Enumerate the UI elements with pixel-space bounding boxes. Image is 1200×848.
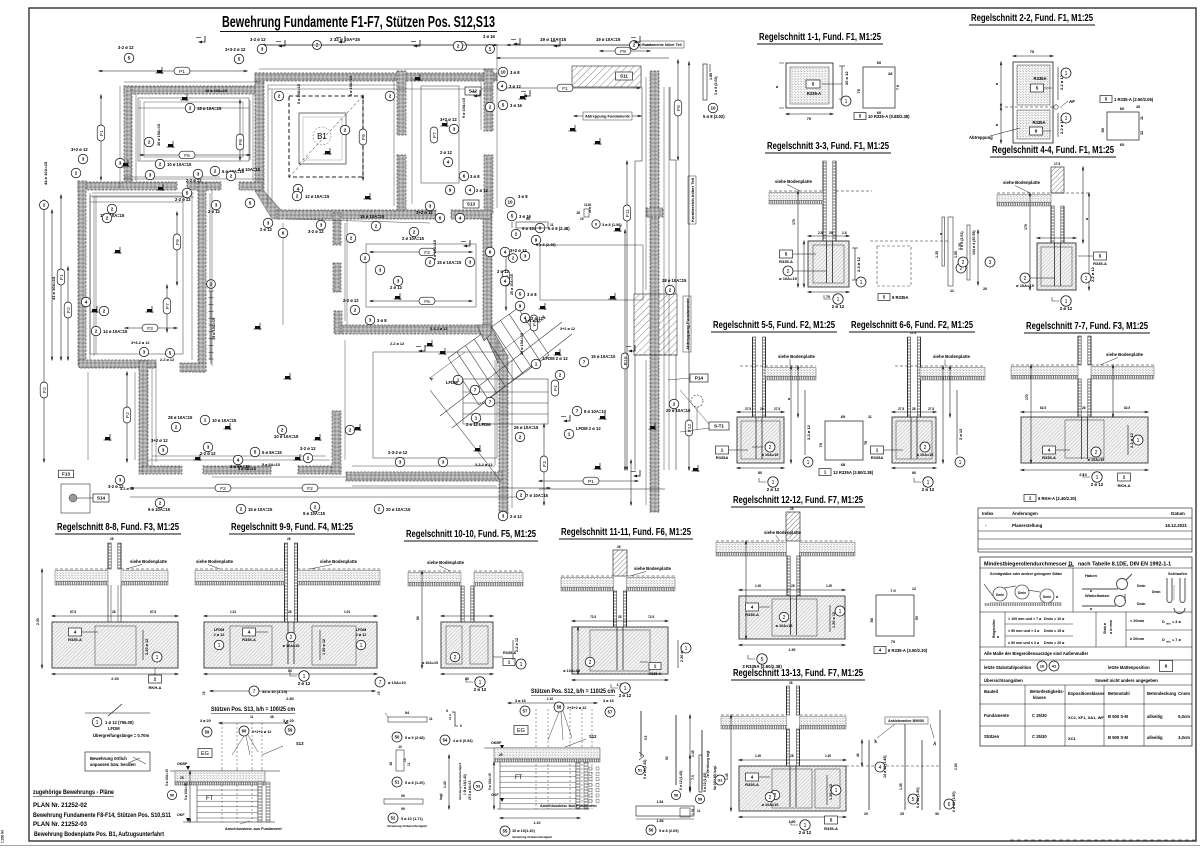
svg-text:2 ø 12: 2 ø 12 [922,487,935,492]
svg-text:2: 2 [344,128,347,133]
node circle 3 at 321,225 [316,220,326,230]
svg-text:Dmin: Dmin [1137,602,1145,606]
svg-text:2-2 ø 12: 2-2 ø 12 [390,342,404,346]
svg-text:Dmin = 20 ø: Dmin = 20 ø [1044,641,1065,645]
hook mark [626,345,635,352]
node circle 3 at 198,174 [193,169,203,179]
wire [155,364,157,462]
svg-text:ø 10A=15: ø 10A=15 [762,453,779,457]
svg-text:69: 69 [841,414,846,419]
node circle 7 at 475,390 [470,385,480,395]
svg-text:2: 2 [278,94,281,99]
svg-text:2: 2 [214,169,217,174]
top thin line y58 [497,57,669,59]
svg-text:134 ø 4 (20.55): 134 ø 4 (20.55) [972,230,976,255]
svg-text:5 ø 8A=15: 5 ø 8A=15 [262,463,280,467]
svg-text:18 ø 10A=15: 18 ø 10A=15 [197,106,222,111]
svg-text:3 ø 20: 3 ø 20 [283,719,294,723]
svg-text:ø in mm: ø in mm [1109,620,1113,634]
svg-text:Stützen: Stützen [984,734,1000,739]
svg-text:9 R335A: 9 R335A [892,295,909,300]
svg-text:1: 1 [1085,276,1088,282]
svg-text:2 ø 12: 2 ø 12 [260,227,273,232]
svg-text:1 20 ø 12: 1 20 ø 12 [322,639,326,655]
svg-text:12: 12 [912,587,916,591]
svg-text:Fundamente: Fundamente [984,713,1010,718]
wall bottom3 [346,472,502,481]
anchor mark [364,193,372,200]
svg-text:2: 2 [75,171,78,176]
label S13 [463,200,479,208]
anchor mark [156,67,164,74]
svg-text:5 ø 10A=15: 5 ø 10A=15 [297,84,301,104]
svg-text:1.84: 1.84 [657,819,664,823]
F7 rect [421,86,459,183]
Fundamente hoeher Teil [640,41,684,48]
node circle 9 at 520,306 [515,301,525,311]
svg-text:70: 70 [891,639,896,644]
svg-text:ø 10A=15: ø 10A=15 [762,803,779,807]
13-13 right pullout bars [846,765,940,767]
svg-text:25: 25 [900,812,904,816]
svg-text:ø 10A=15: ø 10A=15 [779,276,797,281]
svg-text:Stab ø: Stab ø [1103,622,1107,634]
svg-text:10: 10 [500,70,506,75]
svg-text:9: 9 [519,304,522,309]
svg-text:Index: Index [982,511,994,516]
svg-text:3+2 ø 12: 3+2 ø 12 [151,438,168,443]
svg-text:27.5: 27.5 [928,407,934,411]
wall L seg2 [333,263,341,292]
node circle 3 at 268,223 [263,218,273,228]
svg-text:= 4 ø: = 4 ø [1172,620,1181,624]
svg-text:1.90: 1.90 [789,820,796,824]
1-1 caption [854,113,866,120]
svg-text:3-2 ø 12: 3-2 ø 12 [250,37,266,42]
svg-text:FT: FT [515,775,523,781]
svg-text:5: 5 [128,56,131,61]
wire [89,193,91,360]
svg-text:5: 5 [830,818,833,823]
svg-text:80: 80 [465,677,469,681]
svg-text:5 ø 8 (1.20): 5 ø 8 (1.20) [405,781,425,785]
svg-text:1: 1 [479,680,482,686]
wall S11 stub [632,69,641,87]
svg-text:Betondeckung: Betondeckung [1147,691,1177,696]
node circle 10 at 713,108 [708,103,718,113]
svg-text:3: 3 [207,445,210,450]
svg-text:1: 1 [535,362,538,367]
svg-text:60: 60 [1120,142,1125,147]
svg-text:3: 3 [267,221,270,226]
svg-text:17.5: 17.5 [910,331,916,335]
svg-text:1.35: 1.35 [958,243,962,250]
svg-text:82.5: 82.5 [1040,406,1046,410]
svg-text:Haken: Haken [1085,573,1098,578]
wall h3 [79,360,156,368]
svg-text:70: 70 [826,295,830,299]
svg-text:3: 3 [162,448,165,453]
wall V4 upper [484,69,493,131]
svg-text:19: 19 [580,217,584,221]
node circle 2 at 670,290 [665,285,675,295]
node circle 10 at 503,72 [498,67,508,77]
svg-text:1: 1 [772,480,775,486]
hook mark [551,40,560,47]
svg-text:3-2 ø 12: 3-2 ø 12 [120,487,134,491]
svg-text:60: 60 [877,60,882,65]
node circle 3 at 120,163 [115,158,125,168]
svg-text:87.5: 87.5 [150,610,156,614]
Abtreppung label [583,112,632,120]
node circle 4 at 86,302 [81,297,91,307]
svg-text:41 ø 10A=15: 41 ø 10A=15 [51,276,56,300]
svg-text:12 ø 10A=15: 12 ø 10A=15 [305,194,330,199]
svg-text:min: min [1166,640,1171,644]
svg-text:Bewehrung Bodenplatte Pos. B1,: Bewehrung Bodenplatte Pos. B1, Aufzugsun… [34,831,165,838]
svg-text:siehe Bodenplatte: siehe Bodenplatte [764,530,802,535]
svg-text:Schlaufen: Schlaufen [1168,571,1188,576]
Alle Masse row [980,659,1192,661]
svg-text:4: 4 [74,630,77,635]
svg-text:3 ø 20: 3 ø 20 [200,719,211,723]
svg-text:26 ø 10A=15: 26 ø 10A=15 [514,425,539,430]
bottom F2 dim [130,487,550,489]
wire [135,94,137,181]
wire [346,219,348,325]
svg-text:3 ø 16: 3 ø 16 [603,699,614,703]
svg-text:28: 28 [829,231,833,235]
dim lines top [99,70,247,72]
svg-text:3: 3 [469,260,472,265]
svg-text:52: 52 [391,816,396,821]
svg-text:2: 2 [378,507,381,512]
node circle 2 at 345,130 [340,125,350,135]
F12 dim right [688,62,690,470]
wall K stub [180,363,206,372]
node circle 2 at 149,142 [144,137,154,147]
svg-text:3 ø 8: 3 ø 8 [377,318,387,323]
mid room rect [366,244,476,307]
svg-text:R335A: R335A [1032,120,1045,125]
svg-text:F3: F3 [542,461,548,467]
svg-text:1: 1 [835,788,838,794]
svg-text:2 ø 12: 2 ø 12 [474,687,487,692]
node circle 2 at 112,209 [107,204,117,214]
hook mark [276,40,285,47]
svg-text:F6: F6 [424,299,430,305]
svg-text:1 ø 12 (756.00): 1 ø 12 (756.00) [105,720,134,725]
svg-text:28 ø 10A=15: 28 ø 10A=15 [168,415,193,420]
node circle 6 at 490,252 [485,247,495,257]
svg-text:70: 70 [807,116,812,121]
svg-text:2: 2 [350,236,353,241]
wire [645,360,647,505]
wire [252,94,254,181]
svg-text:1 20 ø 12: 1 20 ø 12 [832,612,836,628]
svg-text:2: 2 [281,428,284,433]
svg-text:4: 4 [504,250,507,255]
svg-text:6: 6 [282,231,285,236]
svg-text:27.5: 27.5 [745,407,751,411]
section 8-8 [108,543,111,569]
section 9-9 [285,543,288,622]
wall N horizontal [341,325,482,334]
svg-text:15: 15 [377,691,381,695]
room2 F9 dim [176,212,178,285]
svg-text:C 25/30: C 25/30 [1032,713,1047,718]
svg-text:1.91: 1.91 [691,808,695,815]
svg-text:7: 7 [576,409,579,414]
svg-text:1.55: 1.55 [954,251,958,258]
circles above h3 [139,347,148,356]
wall bottom row1c [239,182,262,190]
node circle 1 at 458,380 [453,375,463,385]
svg-text:Dmin: Dmin [1018,591,1026,595]
svg-text:LFDM 2 ø 12: LFDM 2 ø 12 [576,426,601,431]
node circle 4 at 470,190 [465,185,475,195]
wire [511,360,513,508]
svg-text:6 R335-A (3.00/2.30): 6 R335-A (3.00/2.30) [888,648,928,653]
table header [980,703,1192,705]
room1 inner rects [138,98,249,161]
node circle 3 at 400,462 [395,457,405,467]
svg-text:3-2 ø 12: 3-2 ø 12 [300,446,316,451]
svg-text:5 ø 8 (2.69): 5 ø 8 (2.69) [659,829,679,833]
svg-text:1.01: 1.01 [230,610,236,614]
wire [496,75,498,208]
svg-text:7: 7 [489,400,492,405]
svg-text:3: 3 [82,157,85,162]
node circle 3 at 503,516 [498,511,508,521]
svg-text:38: 38 [270,715,274,719]
12-12 dims [739,589,845,591]
F11 dim [626,161,628,470]
anchor mark [104,434,112,441]
section 12-12 [786,512,800,541]
node circle 2 at 176,427 [171,422,181,432]
svg-text:2: 2 [175,425,178,430]
detail bars top right of plan [703,64,707,100]
anchor mark [181,94,189,101]
anchor mark [426,340,434,347]
svg-text:2: 2 [519,435,522,440]
section 7-7 [1078,336,1081,365]
section 13-13 [787,686,790,715]
svg-text:10 ø 10A=15: 10 ø 10A=15 [274,434,299,439]
svg-text:2: 2 [159,501,162,506]
node circle 9 at 540,228 [535,223,545,233]
svg-text:3: 3 [502,514,505,519]
svg-text:Dmin: Dmin [1152,590,1160,594]
svg-text:1: 1 [624,686,627,692]
svg-text:P1: P1 [588,479,594,485]
svg-text:Planerstellung: Planerstellung [1012,523,1043,528]
svg-text:60: 60 [1120,106,1125,111]
B1 diagonal [299,96,363,164]
svg-text:1: 1 [927,480,930,486]
svg-text:10 ø 10A=15: 10 ø 10A=15 [167,162,192,167]
wire [352,465,495,467]
uebersicht row [980,684,1192,686]
svg-text:2: 2 [1123,475,1126,480]
node circle 3 at 150,175 [145,170,155,180]
svg-text:28 ø 10A=15: 28 ø 10A=15 [520,333,524,355]
svg-text:4: 4 [751,605,754,610]
svg-text:Mindestbiegerollendurchmesser: Mindestbiegerollendurchmesser D [984,562,1072,568]
node circle 2 at 282,430 [277,425,287,435]
wire [211,189,213,366]
svg-text:1: 1 [1065,299,1068,305]
svg-text:40: 40 [856,753,860,757]
svg-text:6 ø 10A=15: 6 ø 10A=15 [433,240,437,260]
node circle 2 at 521,495 [516,490,526,500]
svg-text:XC1: XC1 [1068,736,1077,741]
node circle 3 at 430,206 [425,201,435,211]
wall diag B1 corner [255,191,281,219]
svg-text:Bewehrung örtlich: Bewehrung örtlich [90,756,127,761]
node circle 2 at 96,331 [91,326,101,336]
section 2-2 tall footing [1013,62,1053,143]
svg-text:2: 2 [454,655,457,661]
svg-text:2 ø 12: 2 ø 12 [767,487,780,492]
svg-text:4: 4 [85,300,88,305]
node circle 2 at 430,262 [425,257,435,267]
svg-text:2 ø 12: 2 ø 12 [356,633,367,637]
svg-text:1.10: 1.10 [534,821,541,825]
svg-text:7 8: 7 8 [896,85,900,90]
svg-text:F3: F3 [147,326,153,332]
svg-text:2: 2 [240,507,243,512]
svg-text:F2: F2 [42,387,48,393]
svg-text:4: 4 [879,765,882,771]
svg-text:1: 1 [1065,71,1068,77]
svg-text:F9: F9 [620,49,626,55]
node circle 5 at 512,216 [507,211,517,221]
anchor mark [441,120,449,127]
left vertical dims [43,200,45,462]
svg-text:3: 3 [119,161,122,166]
svg-text:2: 2 [413,230,416,235]
svg-text:28 ff: 28 ff [588,207,592,213]
svg-text:2-2 ø 12: 2-2 ø 12 [175,197,191,202]
svg-text:B 500 S-M: B 500 S-M [1108,735,1129,740]
svg-text:F1: F1 [562,86,568,92]
svg-text:Übergreifungslänge = 0.70m: Übergreifungslänge = 0.70m [93,733,149,738]
node circle 4 at 298,189 [293,184,303,194]
svg-text:5+1 ø 12: 5+1 ø 12 [525,319,540,323]
svg-text:2 ø 12: 2 ø 12 [208,209,221,214]
svg-text:siehe Bodenplatte: siehe Bodenplatte [1003,180,1041,185]
wire [209,193,211,360]
bottom F1 dim [539,480,638,482]
svg-text:2: 2 [159,162,162,167]
svg-text:> 50 mm und > 3 ø: > 50 mm und > 3 ø [1008,629,1040,633]
svg-text:5: 5 [249,201,252,206]
svg-text:Kernbereich höher Teil: Kernbereich höher Teil [691,178,695,222]
svg-text:Expositionsklasse: Expositionsklasse [1068,691,1105,696]
svg-text:15 ø 10A=15: 15 ø 10A=15 [437,260,462,265]
F5 dim [505,250,507,310]
anchor mark [224,423,232,430]
svg-text:Regelschnitt 3-3, Fund. F1, M1: Regelschnitt 3-3, Fund. F1, M1:25 [767,140,889,152]
svg-text:> 100 mm und > 7 ø: > 100 mm und > 7 ø [1008,617,1042,621]
node circle 3 at 380,270 [375,265,385,275]
svg-text:0+2+2 ø 12: 0+2+2 ø 12 [252,730,271,734]
svg-text:1.45: 1.45 [725,773,729,780]
svg-text:Regelschnitt 9-9, Fund. F4, M: Regelschnitt 9-9, Fund. F4, M1:25 [231,521,353,533]
node circle 7 at 490,402 [485,397,495,407]
svg-text:1: 1 [218,643,221,649]
wall V3 upper [397,71,406,135]
wire [93,197,95,356]
hook mark [631,470,640,477]
svg-text:3 ø 16: 3 ø 16 [483,34,496,39]
svg-text:15 ø 10A=10: 15 ø 10A=10 [591,354,616,359]
wall L seg3 [334,311,342,334]
svg-text:5: 5 [186,191,189,196]
svg-text:3: 3 [453,127,456,132]
node circle 2 at 379,509 [374,504,384,514]
svg-text:F7: F7 [165,303,171,309]
svg-text:2 ø 12: 2 ø 12 [1060,306,1073,311]
svg-text:2: 2 [669,288,672,293]
node circle 2 at 107,218 [102,213,112,223]
wire [134,372,136,460]
svg-text:2 ø 12: 2 ø 12 [510,514,523,519]
svg-text:1.35: 1.35 [935,251,939,258]
svg-text:S13: S13 [467,202,476,207]
dashed line bottom right [1010,839,1195,841]
wire [344,223,346,321]
wire [267,85,269,206]
node circle 2 at 215,171 [210,166,220,176]
hook mark [471,90,480,97]
svg-text:50: 50 [915,616,919,620]
svg-text:Regelschnitt 11-11, Fund. F6,: Regelschnitt 11-11, Fund. F6, M1:25 [561,526,691,538]
svg-text:1.20: 1.20 [825,754,831,758]
svg-text:PLAN Nr. 21252-02: PLAN Nr. 21252-02 [33,802,87,809]
svg-text:2-2 ø 12: 2-2 ø 12 [200,451,216,456]
svg-text:AF: AF [1069,99,1075,104]
svg-text:Regelschnitt 4-4, Fund. F1, M1: Regelschnitt 4-4, Fund. F1, M1:25 [992,144,1114,156]
svg-text:2: 2 [296,194,299,199]
wall bottom2 a [142,466,182,474]
svg-text:5 ø 10A=15: 5 ø 10A=15 [488,773,492,790]
svg-text:R335-A: R335-A [242,637,256,642]
svg-text:F1: F1 [59,274,65,280]
5-5 dims [737,411,784,413]
hook mark [631,36,640,43]
svg-text:2: 2 [148,140,151,145]
node circle 5 at 129,58 [124,53,134,63]
F1 dim right room [500,87,640,89]
svg-text:19 ø 10A=15: 19 ø 10A=15 [596,37,621,42]
svg-text:2 ø 10A=15: 2 ø 10A=15 [402,236,425,241]
svg-text:6: 6 [1035,129,1038,134]
svg-text:2.30: 2.30 [36,618,40,625]
wire [645,77,647,290]
svg-text:7.0: 7.0 [691,775,695,780]
node circle 4 at 525,318 [520,313,530,323]
svg-text:Stützen Pos. S13, b/h = 100/25: Stützen Pos. S13, b/h = 100/25 cm [211,707,295,713]
svg-text:Regelschnitt 2-2, Fund. F1, M1: Regelschnitt 2-2, Fund. F1, M1:25 [971,12,1093,24]
node circle 2 at 160,164 [155,159,165,169]
svg-text:Änderungen: Änderungen [1012,511,1038,516]
svg-text:Abtreppung Fundamente: Abtreppung Fundamente [686,298,690,350]
index table [978,508,1192,552]
svg-text:54: 54 [443,738,448,743]
